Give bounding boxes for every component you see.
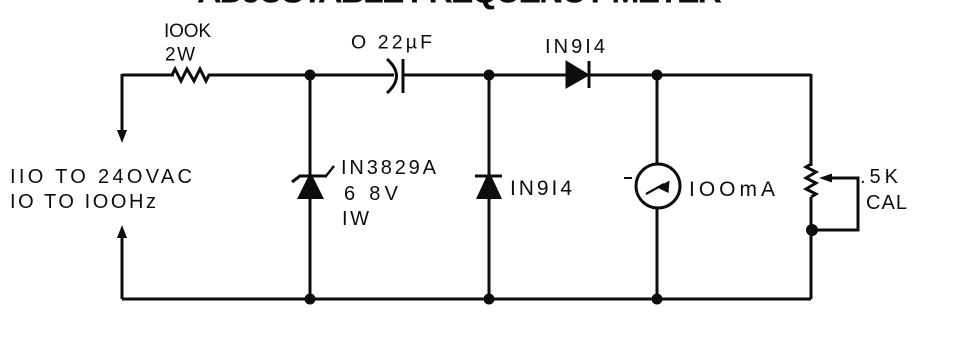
label 2W — [165, 45, 195, 66]
node junction bottom meter branch — [652, 294, 663, 305]
capacitor C1 0 22uF curved plate — [387, 59, 397, 93]
node junction bottom zener branch — [305, 294, 316, 305]
wire top rail resistor to capacitor — [211, 74, 394, 77]
label 1N914 middle — [510, 177, 572, 200]
potentiometer wiper arrow — [819, 174, 832, 183]
label CAL — [866, 192, 907, 214]
svg-text:.5K: .5K — [860, 166, 899, 188]
svg-text:IOOK: IOOK — [164, 21, 211, 42]
title (cropped bottom of bold heading) — [197, 0, 722, 11]
diode D1 1N914 horizontal — [566, 61, 589, 88]
wire zener branch upper — [309, 75, 312, 177]
svg-text:IO TO IOOHz: IO TO IOOHz — [10, 191, 156, 213]
svg-text:IN9I4: IN9I4 — [545, 36, 605, 58]
meter M1 100mA — [636, 164, 680, 208]
node junction pot bottom — [806, 224, 818, 236]
label 1N914 top — [545, 36, 605, 58]
svg-text:IN3829A: IN3829A — [341, 157, 437, 179]
svg-text:ADJUSTABLE FREQUENCY METER: ADJUSTABLE FREQUENCY METER — [197, 0, 722, 11]
wire bottom rail — [122, 298, 811, 301]
svg-text:2 W: 2 W — [165, 45, 195, 66]
resistor R1 100K 2W — [172, 69, 211, 81]
svg-text:O 22µF: O 22µF — [351, 32, 432, 54]
svg-text:IIO TO 24OVAC: IIO TO 24OVAC — [10, 166, 192, 188]
svg-text:IN9I4: IN9I4 — [510, 177, 572, 200]
wire meter branch upper — [656, 75, 659, 165]
label 10 TO 100Hz — [10, 191, 156, 213]
wire wiper to cal loop — [812, 178, 858, 230]
label 100mA — [689, 178, 775, 201]
label 1N3829A — [341, 157, 437, 179]
svg-text:CAL: CAL — [866, 192, 907, 214]
label 0 22uF — [351, 32, 432, 54]
wire left rail lower — [121, 237, 124, 299]
node junction bottom diode branch — [484, 294, 495, 305]
node junction top meter branch — [652, 70, 663, 81]
label 5K — [860, 166, 899, 188]
wire right rail upper — [810, 74, 813, 166]
svg-text:6 8V: 6 8V — [344, 183, 399, 205]
tick mark left of meter — [624, 177, 632, 179]
label 100K — [164, 21, 211, 42]
svg-text:IOOmA: IOOmA — [689, 178, 775, 201]
label 110 TO 240VAC — [10, 166, 192, 188]
wire zener branch lower — [309, 199, 312, 299]
node junction top zener branch — [305, 70, 316, 81]
label 1W — [342, 208, 369, 230]
wire top rail capacitor to diode — [403, 74, 567, 77]
diode D3 1N914 vertical — [475, 171, 502, 199]
wire top rail left segment — [122, 74, 174, 77]
label 6 8V — [344, 183, 399, 205]
wire diode branch lower — [488, 199, 491, 299]
potentiometer R2 5K zigzag — [806, 164, 816, 197]
wire top rail diode to right corner — [589, 74, 811, 77]
wire left rail upper — [121, 74, 124, 131]
arrow up input — [117, 225, 127, 238]
arrow down input — [117, 130, 127, 143]
capacitor C1 straight plate — [402, 59, 405, 93]
zener diode D2 1N3829A — [292, 166, 334, 199]
svg-text:I W: I W — [342, 208, 369, 230]
wire meter branch lower — [656, 207, 659, 299]
node junction top diode branch — [484, 70, 495, 81]
wire right rail lower — [810, 197, 813, 299]
wire diode branch upper — [488, 75, 491, 177]
